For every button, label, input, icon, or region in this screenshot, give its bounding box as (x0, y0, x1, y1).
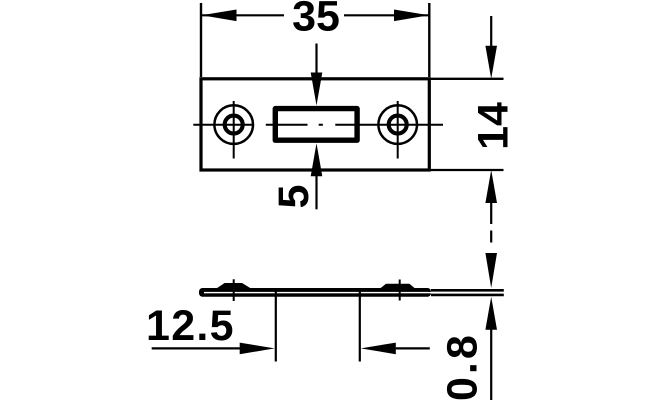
svg-text:35: 35 (292, 0, 340, 41)
svg-text:0.8: 0.8 (439, 332, 487, 400)
svg-text:12.5: 12.5 (146, 302, 235, 350)
svg-text:14: 14 (470, 102, 518, 150)
svg-text:5: 5 (270, 185, 318, 209)
